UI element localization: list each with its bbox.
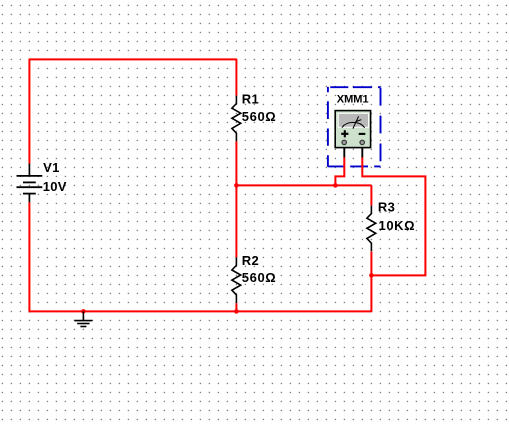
right terminal	[360, 140, 365, 145]
resistor R2	[232, 257, 241, 303]
multimeter XMM1 body	[335, 111, 370, 148]
node C junction dot	[369, 273, 374, 278]
wire R1 top lead	[235, 59, 237, 96]
wire top horizontal	[29, 58, 237, 60]
wire R2 bottom lead to bottom rail	[235, 303, 237, 311]
node B junction dot	[333, 183, 338, 188]
left terminal	[342, 140, 347, 145]
wire XMM1 right terminal lead (black)	[361, 147, 363, 157]
svg-text:560Ω: 560Ω	[242, 109, 277, 124]
wire XMM1 left terminal lead (black)	[343, 147, 345, 157]
wire bottom horizontal rail	[29, 310, 372, 312]
resistor R1	[232, 96, 241, 142]
svg-text:V1: V1	[43, 160, 60, 175]
meter scale arc	[342, 122, 365, 127]
battery V1 (DC source)	[17, 164, 43, 203]
wire middle horizontal (node A to R3 top)	[236, 184, 371, 186]
ground	[74, 311, 92, 326]
wire battery V1 bottom to bottom-left corner	[28, 202, 30, 312]
svg-text:XMM1: XMM1	[337, 93, 369, 105]
wire XMM1 left jog down to node B	[335, 157, 344, 185]
svg-text:R2: R2	[242, 253, 259, 268]
svg-text:560Ω: 560Ω	[242, 270, 277, 285]
wire R3 top lead	[370, 185, 372, 205]
minus terminal sign	[359, 133, 366, 135]
svg-text:10KΩ: 10KΩ	[379, 218, 416, 233]
svg-text:R3: R3	[378, 200, 395, 215]
node A junction dot	[234, 183, 239, 188]
svg-text:10V: 10V	[43, 179, 67, 194]
node E junction dot (ground tap)	[81, 309, 86, 314]
multimeter XMM1 selection box	[328, 87, 381, 167]
meter needle tick	[355, 120, 361, 122]
plus terminal sign	[341, 130, 348, 137]
wire node C to bottom rail	[370, 275, 372, 312]
wire R3 bottom lead to node C	[370, 252, 372, 276]
wire XMM1 right branch to node C	[362, 157, 425, 275]
resistor R3	[367, 206, 376, 252]
wire left vertical top (battery V1 to top-left corner)	[28, 59, 30, 163]
svg-text:R1: R1	[242, 91, 259, 106]
meter needle	[353, 116, 359, 128]
wire R1 bottom to node A	[235, 141, 237, 185]
wire node A to R2 top	[235, 185, 237, 257]
node D junction dot (R2 bottom)	[234, 309, 239, 314]
